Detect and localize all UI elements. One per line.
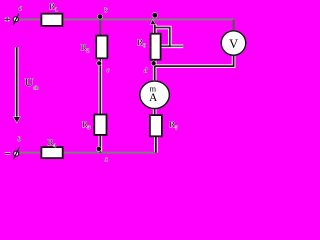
svg-text:A: A [149, 92, 158, 104]
svg-text:a: a [19, 5, 22, 12]
svg-text:x: x [104, 157, 108, 163]
svg-text:c: c [107, 68, 110, 74]
svg-text:V: V [229, 37, 238, 51]
svg-text:k: k [104, 7, 107, 14]
